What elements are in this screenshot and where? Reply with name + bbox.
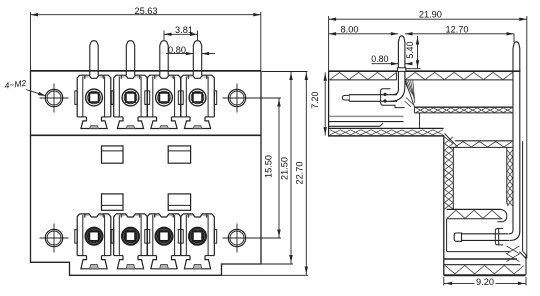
svg-text:0.80: 0.80	[371, 54, 388, 64]
mid horizontal line of left view body	[31, 134, 262, 136]
middle rectangle upper-right	[168, 146, 190, 163]
hatch sliver right of elbow	[405, 82, 409, 92]
right wall chamfer and bottom right corner	[520, 252, 527, 259]
dimension 21.50	[290, 72, 292, 264]
upper horizontal pin with rounded tip	[349, 95, 397, 102]
side view top edge line	[329, 70, 398, 72]
bottom hatched band	[445, 266, 524, 274]
dimension 7.20	[324, 72, 326, 135]
lower middle hatched band with end bump	[447, 208, 501, 210]
dimension 9.20	[443, 277, 445, 286]
dimension 21.90	[329, 18, 527, 20]
svg-text:5.40: 5.40	[405, 41, 415, 58]
extension line bottom edge 21.50	[262, 263, 294, 265]
dimension 0.80 front view	[166, 53, 193, 55]
mounting hole top-left	[45, 89, 62, 106]
svg-text:21.50: 21.50	[280, 157, 290, 180]
corner hatches near lower elbow	[507, 246, 520, 262]
svg-text:21.90: 21.90	[419, 10, 442, 20]
terminal clamp bottom row 4	[187, 215, 193, 217]
dimension 8.00	[329, 33, 399, 35]
svg-text:9.20: 9.20	[476, 277, 494, 287]
channel hatch marks	[507, 150, 512, 206]
dimension 15.50	[278, 98, 280, 238]
svg-text:3.81: 3.81	[175, 25, 193, 35]
terminal clamp top row 3	[154, 76, 160, 78]
step diagonal from elbow to middle band	[406, 81, 415, 107]
pin 1 front view	[90, 41, 98, 75]
middle rectangle lower-right	[168, 194, 190, 210]
middle rectangle lower-left	[102, 194, 124, 210]
mounting hole bottom-left	[45, 229, 62, 246]
svg-text:12.70: 12.70	[446, 25, 469, 35]
middle rectangle upper-left	[102, 146, 124, 163]
lower cavity floor lines	[447, 251, 510, 253]
side view left edge	[328, 71, 330, 136]
body top edge over pins	[31, 70, 262, 72]
contact leaf lines lower left section	[329, 115, 403, 117]
lower cavity left wall	[446, 219, 448, 252]
chamfer wall to lower ceiling band	[445, 134, 458, 147]
lower horizontal pin with tip block	[454, 233, 461, 241]
lower ceiling hatched band	[455, 140, 512, 142]
terminal clamp top row 4	[187, 76, 193, 78]
extension line 12.70 right to pin tip	[513, 34, 515, 42]
terminal clamp bottom row 3	[154, 215, 160, 217]
dimension 3.81 extension lines	[163, 31, 165, 41]
pin 2 front view	[126, 41, 134, 75]
upper pin elbow	[390, 71, 405, 101]
svg-text:25.63: 25.63	[135, 6, 158, 16]
lower pin elbow	[509, 231, 520, 241]
upper pin slot seats in top band	[396, 72, 398, 80]
terminal clamp top row 2	[120, 76, 126, 78]
extension line bottom step 22.70	[222, 274, 308, 276]
pin channel inner wall	[507, 148, 509, 205]
left view body outline	[31, 70, 262, 72]
dimension 3.81	[164, 33, 198, 35]
dimension 21.90 extension lines	[328, 16, 330, 72]
svg-text:8.00: 8.00	[341, 25, 359, 35]
middle hatched band	[415, 106, 513, 108]
pin 3 front view	[160, 41, 168, 75]
dimension 25.63 extension lines	[30, 12, 32, 71]
right vertical pin (long)	[513, 42, 520, 48]
top hatched band	[329, 79, 396, 81]
left section bottom edge	[328, 135, 444, 137]
extension line top edge to right dims	[262, 71, 308, 73]
step lines below middle band	[419, 113, 421, 128]
svg-text:0.80: 0.80	[168, 45, 186, 55]
upper contact clip	[381, 89, 405, 108]
dimension 12.70	[405, 33, 514, 35]
svg-text:15.50: 15.50	[264, 155, 274, 178]
bottom edge of side view	[444, 274, 526, 276]
vertical wall column	[443, 136, 445, 276]
pin 4 front view	[193, 41, 201, 75]
dimension 25.63	[31, 14, 261, 16]
terminal clamp bottom row 2	[120, 215, 126, 217]
right wall outer line	[522, 141, 524, 251]
terminal clamp bottom row 1	[84, 215, 90, 217]
lower contact clip	[495, 228, 503, 245]
dimension 22.70	[305, 72, 307, 276]
mounting hole bottom-right with extension to 15.50 dim	[228, 229, 245, 246]
svg-text:22.70: 22.70	[295, 162, 305, 185]
svg-text:7.20: 7.20	[310, 92, 320, 109]
top pin side view with collar	[398, 36, 405, 68]
terminal clamp top row 1	[84, 76, 90, 78]
left section bottom hatched band	[329, 127, 443, 129]
dimension 5.40	[417, 36, 419, 69]
mounting hole top-right with extension to 15.50 dim	[228, 89, 245, 106]
